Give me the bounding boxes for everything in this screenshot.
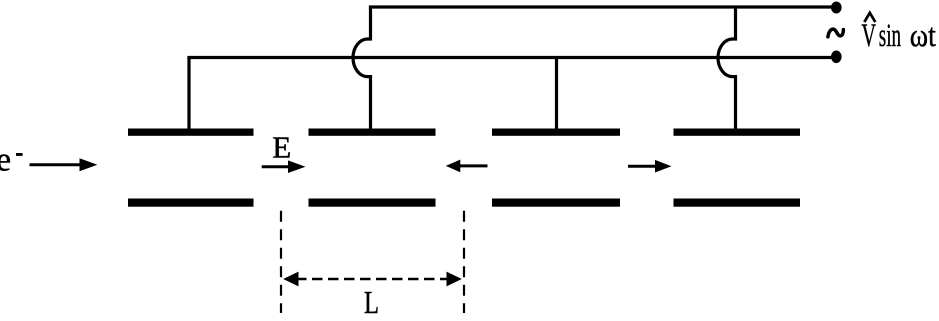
dimension arrow L (283, 272, 462, 287)
svg-text:e: e (0, 142, 11, 179)
wire tube4 to upper bus with crossover hop (718, 7, 736, 130)
field arrow gap 2-3 (left) (446, 160, 488, 173)
drift tube 4 bottom plate (674, 199, 801, 207)
drift tube 2 bottom plate (309, 199, 436, 207)
drift tube 1 top plate (128, 129, 254, 136)
svg-text:E: E (272, 131, 291, 165)
svg-text:L: L (364, 285, 379, 320)
wire tube1 to lower bus (187, 58, 190, 130)
drift tube 2 top plate (309, 129, 436, 136)
wire tube3 to lower bus (555, 58, 558, 130)
svg-text:ωt: ωt (910, 18, 936, 54)
wire lower bus (y=57.5) (187, 56, 836, 59)
terminal bottom (831, 51, 842, 64)
svg-text:V: V (862, 18, 877, 54)
node e- (electron label) (0, 142, 23, 179)
AC source tilde (828, 29, 844, 37)
drift tube 1 bottom plate (128, 199, 254, 207)
drift tube 3 bottom plate (492, 199, 620, 207)
electron beam arrow (30, 158, 98, 171)
E field arrow gap 1-2 (right) (262, 160, 306, 173)
drift tube 3 top plate (492, 129, 620, 136)
drift tube 4 top plate (674, 129, 801, 136)
svg-text:sin: sin (879, 18, 901, 54)
label Vhat sin wt (862, 13, 936, 54)
dashed construction line right (463, 211, 465, 313)
wire upper bus (y=7) (369, 5, 836, 8)
wire tube2 to upper bus with crossover hop (353, 7, 371, 130)
terminal top (831, 2, 842, 14)
field arrow gap 3-4 (right) (628, 160, 672, 173)
dashed construction line left (280, 211, 282, 313)
